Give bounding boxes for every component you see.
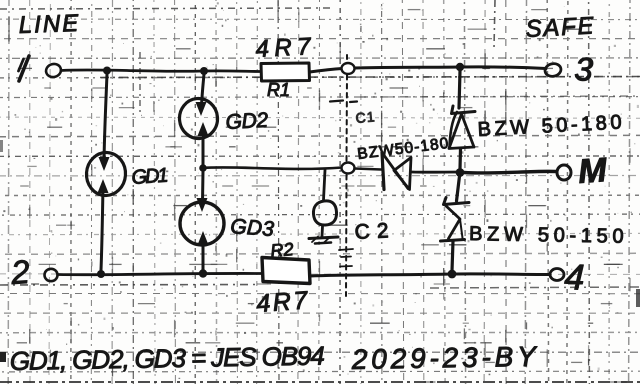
diode D3 series BZW50-180 on middle wire (382, 153, 411, 190)
svg-text:R2: R2 (270, 239, 295, 261)
wire middle: diode to transil junction (412, 171, 460, 174)
wire top: terminal 1 to R1 (61, 70, 261, 72)
node junction top wire / transil chain (456, 63, 464, 71)
transil D1 BZW 50-180 (449, 106, 475, 149)
svg-text:C1: C1 (355, 108, 376, 126)
node junction bottom wire / GD1 (97, 270, 105, 278)
gas discharge tube GD1 (85, 74, 127, 270)
gas discharge tube GD2 (178, 74, 219, 165)
wire top: R1 to terminal 3 (310, 67, 547, 72)
wire: top junction down to transil D1 (459, 71, 460, 108)
svg-text:4R7: 4R7 (255, 33, 316, 63)
terminal M (557, 151, 608, 191)
terminal 3 (544, 50, 595, 88)
wire middle: junction to terminal M (464, 171, 556, 173)
wire bottom: R2 to terminal 4 (310, 274, 550, 276)
svg-text:4: 4 (564, 256, 585, 298)
node junction bottom wire / GD3 (199, 269, 207, 277)
capacitor C2 branch stem (324, 170, 326, 200)
wire bottom: terminal 2 to R2 (58, 273, 262, 274)
shield / screen dashed line (330, 55, 357, 296)
terminal 2 (9, 253, 58, 291)
node junction top wire / GD2 (200, 67, 208, 75)
wire: transil D1 to middle junction (458, 149, 462, 170)
svg-text:SAFE: SAFE (525, 12, 596, 43)
svg-text:GD1: GD1 (131, 164, 170, 189)
terminal 1 (19, 56, 63, 81)
capacitor C2 feed-through circle on shield (342, 163, 355, 174)
wire middle: shield crossing to series diode (355, 169, 382, 170)
svg-text:GD2: GD2 (225, 109, 270, 134)
svg-text:GD3: GD3 (230, 215, 276, 241)
wire: middle junction to transil D2 (457, 176, 460, 201)
ground (309, 227, 338, 244)
node junction middle wire / GD2-GD3 (199, 164, 207, 172)
gas discharge tube GD3 (179, 171, 225, 270)
node junction top wire / GD1 (103, 67, 111, 75)
svg-text:2: 2 (9, 253, 31, 291)
svg-text:LINE: LINE (18, 10, 81, 39)
terminal 4 (550, 256, 585, 298)
capacitor C1 feed-through circle on shield (342, 63, 355, 74)
capacitor C2 body (313, 201, 336, 225)
svg-text:M: M (577, 151, 609, 191)
wire middle: GD junction to shield crossing (203, 167, 342, 169)
node junction bottom wire / transil chain (448, 270, 457, 279)
svg-text:4R7: 4R7 (255, 286, 311, 318)
svg-text:2029-23-BY: 2029-23-BY (351, 341, 539, 375)
svg-text:GD1, GD2, GD3 = JES OB94: GD1, GD2, GD3 = JES OB94 (10, 341, 325, 376)
wire: transil D2 to bottom wire (452, 241, 453, 271)
resistor R2 (262, 258, 310, 284)
transil D2 BZW 50-150 (441, 198, 470, 242)
svg-text:R1: R1 (267, 80, 290, 100)
svg-text:BZW 50-150: BZW 50-150 (469, 223, 627, 248)
node junction middle wire / transil chain (456, 168, 465, 177)
resistor R1 (261, 63, 310, 81)
svg-text:3: 3 (574, 50, 595, 88)
